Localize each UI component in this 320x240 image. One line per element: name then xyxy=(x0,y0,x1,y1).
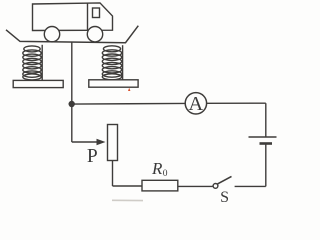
svg-text:0: 0 xyxy=(163,169,168,179)
svg-text:A: A xyxy=(188,93,203,115)
svg-text:R: R xyxy=(151,159,163,178)
svg-text:P: P xyxy=(87,146,98,167)
svg-text:S: S xyxy=(220,189,229,206)
